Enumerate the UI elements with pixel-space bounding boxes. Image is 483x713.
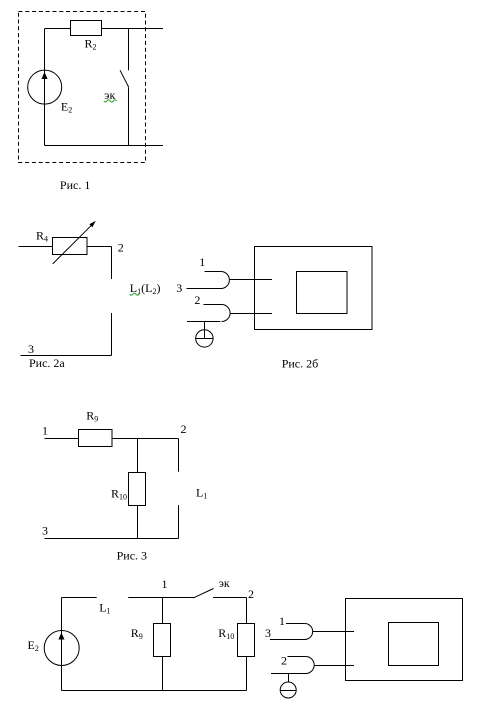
wire top Fig.1 — [45, 28, 164, 30]
svg-text:2: 2 — [281, 654, 287, 668]
wire to node 2 Fig.2a — [87, 246, 112, 248]
svg-text:E2: E2 — [61, 100, 72, 115]
svg-text:1: 1 — [42, 423, 48, 437]
wire bottom Fig.3 — [45, 538, 179, 540]
wire bottom Fig.4 — [62, 690, 247, 692]
svg-text:R9: R9 — [86, 409, 98, 424]
terminal gap wires L1 Fig.3 — [178, 439, 180, 472]
wire node2 to R10 Fig.4 — [246, 598, 248, 624]
svg-text:2: 2 — [118, 241, 124, 255]
wire top-left segment Fig.4 — [62, 597, 97, 599]
wire R10 to bottom Fig.4 — [246, 657, 248, 691]
switch эк Fig.4 — [193, 589, 213, 598]
svg-text:L1: L1 — [99, 601, 110, 616]
source E2 Fig.4 — [44, 631, 79, 666]
resistor R10 Fig.4 — [238, 624, 255, 657]
wire jack1 to scope Fig.2b — [229, 279, 272, 281]
ground Fig.4 — [288, 674, 290, 683]
switch эк Fig.1 — [128, 29, 130, 71]
svg-text:2: 2 — [248, 587, 254, 601]
svg-text:R2: R2 — [85, 37, 97, 52]
svg-text:L1: L1 — [196, 485, 207, 500]
oscilloscope screen Fig.4 — [389, 623, 439, 666]
connector jack 1-3 Fig.4 scope — [286, 623, 305, 625]
svg-text:3: 3 — [42, 524, 48, 538]
oscilloscope body Fig.2b — [255, 247, 373, 330]
wire switch to node2 Fig.4 — [213, 597, 247, 599]
svg-text:E2: E2 — [28, 638, 39, 653]
wire bottom Fig.1 — [45, 145, 164, 147]
svg-text:Рис. 1: Рис. 1 — [60, 178, 90, 192]
wire to node 3 Fig.2a — [111, 313, 113, 356]
svg-text:Рис. 3: Рис. 3 — [117, 548, 147, 562]
wire top-mid segment Fig.4 — [128, 597, 194, 599]
ground Fig.2b — [204, 322, 206, 339]
svg-text:R10: R10 — [111, 487, 127, 502]
wire junction to R10 Fig.3 — [137, 439, 139, 474]
svg-text:1: 1 — [162, 577, 168, 591]
resistor R9 Fig.4 — [154, 624, 171, 657]
resistor R10 Fig.3 — [129, 473, 146, 506]
svg-text:2: 2 — [194, 293, 200, 307]
svg-text:Рис. 2а: Рис. 2а — [29, 356, 65, 370]
wire jack1 to scope Fig.4 — [313, 631, 354, 633]
svg-text:3: 3 — [28, 342, 34, 356]
svg-text:Рис. 2б: Рис. 2б — [282, 356, 319, 370]
wire jack2 to scope Fig.4 — [314, 665, 354, 667]
svg-text:2: 2 — [181, 422, 187, 436]
svg-text:эк: эк — [219, 576, 230, 590]
oscilloscope screen Fig.2b — [297, 272, 348, 314]
Fig.1 dashed boundary box — [19, 12, 146, 163]
connector jack 2 Fig.4 scope — [288, 656, 306, 658]
wire R9 to bottom Fig.4 — [162, 657, 164, 691]
connector jack 1-3 Fig.2b — [205, 271, 221, 273]
wire left Fig.4 — [61, 598, 63, 691]
wire node1 to R9 Fig.4 — [162, 598, 164, 624]
wire jack2 to scope Fig.2b — [230, 313, 272, 315]
svg-text:R10: R10 — [218, 626, 234, 641]
wire R10 to bottom Fig.3 — [137, 506, 139, 539]
svg-text:1: 1 — [279, 614, 285, 628]
svg-text:1: 1 — [199, 255, 205, 269]
svg-text:R4: R4 — [36, 229, 48, 244]
svg-text:3: 3 — [176, 281, 182, 295]
resistor R2 — [71, 21, 102, 36]
source E2 Fig.1 — [28, 70, 62, 104]
svg-text:3: 3 — [265, 626, 271, 640]
connector jack 2 Fig.2b — [204, 304, 222, 306]
svg-text:R9: R9 — [131, 626, 143, 641]
wire left Fig.1 — [44, 29, 46, 146]
oscilloscope body Fig.4 — [346, 599, 463, 681]
